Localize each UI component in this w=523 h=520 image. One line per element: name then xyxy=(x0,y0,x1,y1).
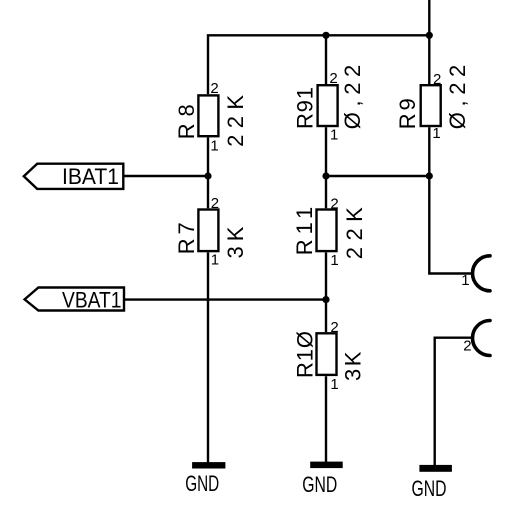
junction dot at R91 top xyxy=(322,32,329,39)
connector socket pin 2 arc xyxy=(473,321,491,356)
svg-text:R91: R91 xyxy=(293,87,318,129)
wire IBAT1 flag to node xyxy=(123,175,208,177)
junction dot row2 col2 xyxy=(322,172,329,179)
svg-text:2: 2 xyxy=(329,70,337,87)
wire R7 pin1 down to GND xyxy=(207,252,209,462)
resistor R91 body xyxy=(318,85,338,126)
wire R11 pin1 to R10 pin2 xyxy=(325,252,327,332)
wire R9 pin2 drop xyxy=(428,35,430,84)
net flag IBAT1 outline xyxy=(24,164,124,189)
svg-text:2: 2 xyxy=(210,80,218,97)
svg-text:1: 1 xyxy=(211,251,219,268)
svg-text:GND: GND xyxy=(185,471,219,496)
svg-text:IBAT1: IBAT1 xyxy=(62,164,119,189)
resistor R7 body xyxy=(198,210,218,252)
svg-text:1: 1 xyxy=(432,125,440,142)
ground symbol GND 1 bar xyxy=(192,462,225,468)
junction dot row2 col3 xyxy=(426,172,433,179)
wire R91 pin2 drop xyxy=(325,35,327,84)
svg-text:3K: 3K xyxy=(340,351,365,381)
svg-text:R9: R9 xyxy=(395,98,420,129)
resistor R8 body xyxy=(198,95,218,136)
svg-text:2: 2 xyxy=(330,319,338,336)
svg-text:2: 2 xyxy=(463,338,471,355)
junction dot node VBAT xyxy=(322,296,329,303)
ground symbol GND 2 bar xyxy=(310,462,343,469)
ground symbol GND 3 bar xyxy=(419,465,452,472)
connector socket pin 1 arc xyxy=(473,256,491,291)
svg-text:1: 1 xyxy=(210,137,218,154)
svg-text:2: 2 xyxy=(330,195,338,212)
resistor R9 body xyxy=(421,85,441,126)
wire R11 pin2 xyxy=(325,176,327,208)
wire col3 down to connector pin 1 xyxy=(429,176,472,274)
wire top horizontal bus xyxy=(208,35,429,94)
resistor R11 body xyxy=(317,210,337,252)
svg-text:2: 2 xyxy=(211,195,219,212)
junction dot node IBAT xyxy=(204,172,211,179)
wire VBAT1 flag to node xyxy=(124,298,326,300)
wire R8 pin1 to IBAT node xyxy=(207,137,209,176)
wire R91 pin1 drop xyxy=(325,127,327,176)
svg-text:R1Ø: R1Ø xyxy=(292,331,317,378)
wire connector pin 2 to GND xyxy=(435,338,473,466)
svg-text:1: 1 xyxy=(330,127,338,144)
wire top vertical feed at x=429 going off top edge xyxy=(428,0,430,35)
svg-text:22K: 22K xyxy=(223,95,248,147)
net flag VBAT1 outline xyxy=(25,288,124,311)
svg-text:1: 1 xyxy=(461,272,469,289)
wire R9 pin1 drop xyxy=(428,127,430,176)
svg-text:22K: 22K xyxy=(342,207,367,259)
wire row2 horizontal R91 to R9 xyxy=(326,175,429,177)
svg-text:R11: R11 xyxy=(292,207,317,256)
wire R7 pin2 xyxy=(207,176,209,208)
wire R10 pin1 down to GND xyxy=(325,376,327,462)
svg-text:1: 1 xyxy=(330,376,338,393)
resistor R10 body xyxy=(317,333,337,375)
svg-text:GND: GND xyxy=(302,472,337,497)
svg-text:2: 2 xyxy=(433,71,441,88)
svg-text:GND: GND xyxy=(412,476,447,501)
junction dot at R9 top xyxy=(426,32,433,39)
svg-text:1: 1 xyxy=(330,252,338,269)
svg-text:VBAT1: VBAT1 xyxy=(62,287,122,312)
